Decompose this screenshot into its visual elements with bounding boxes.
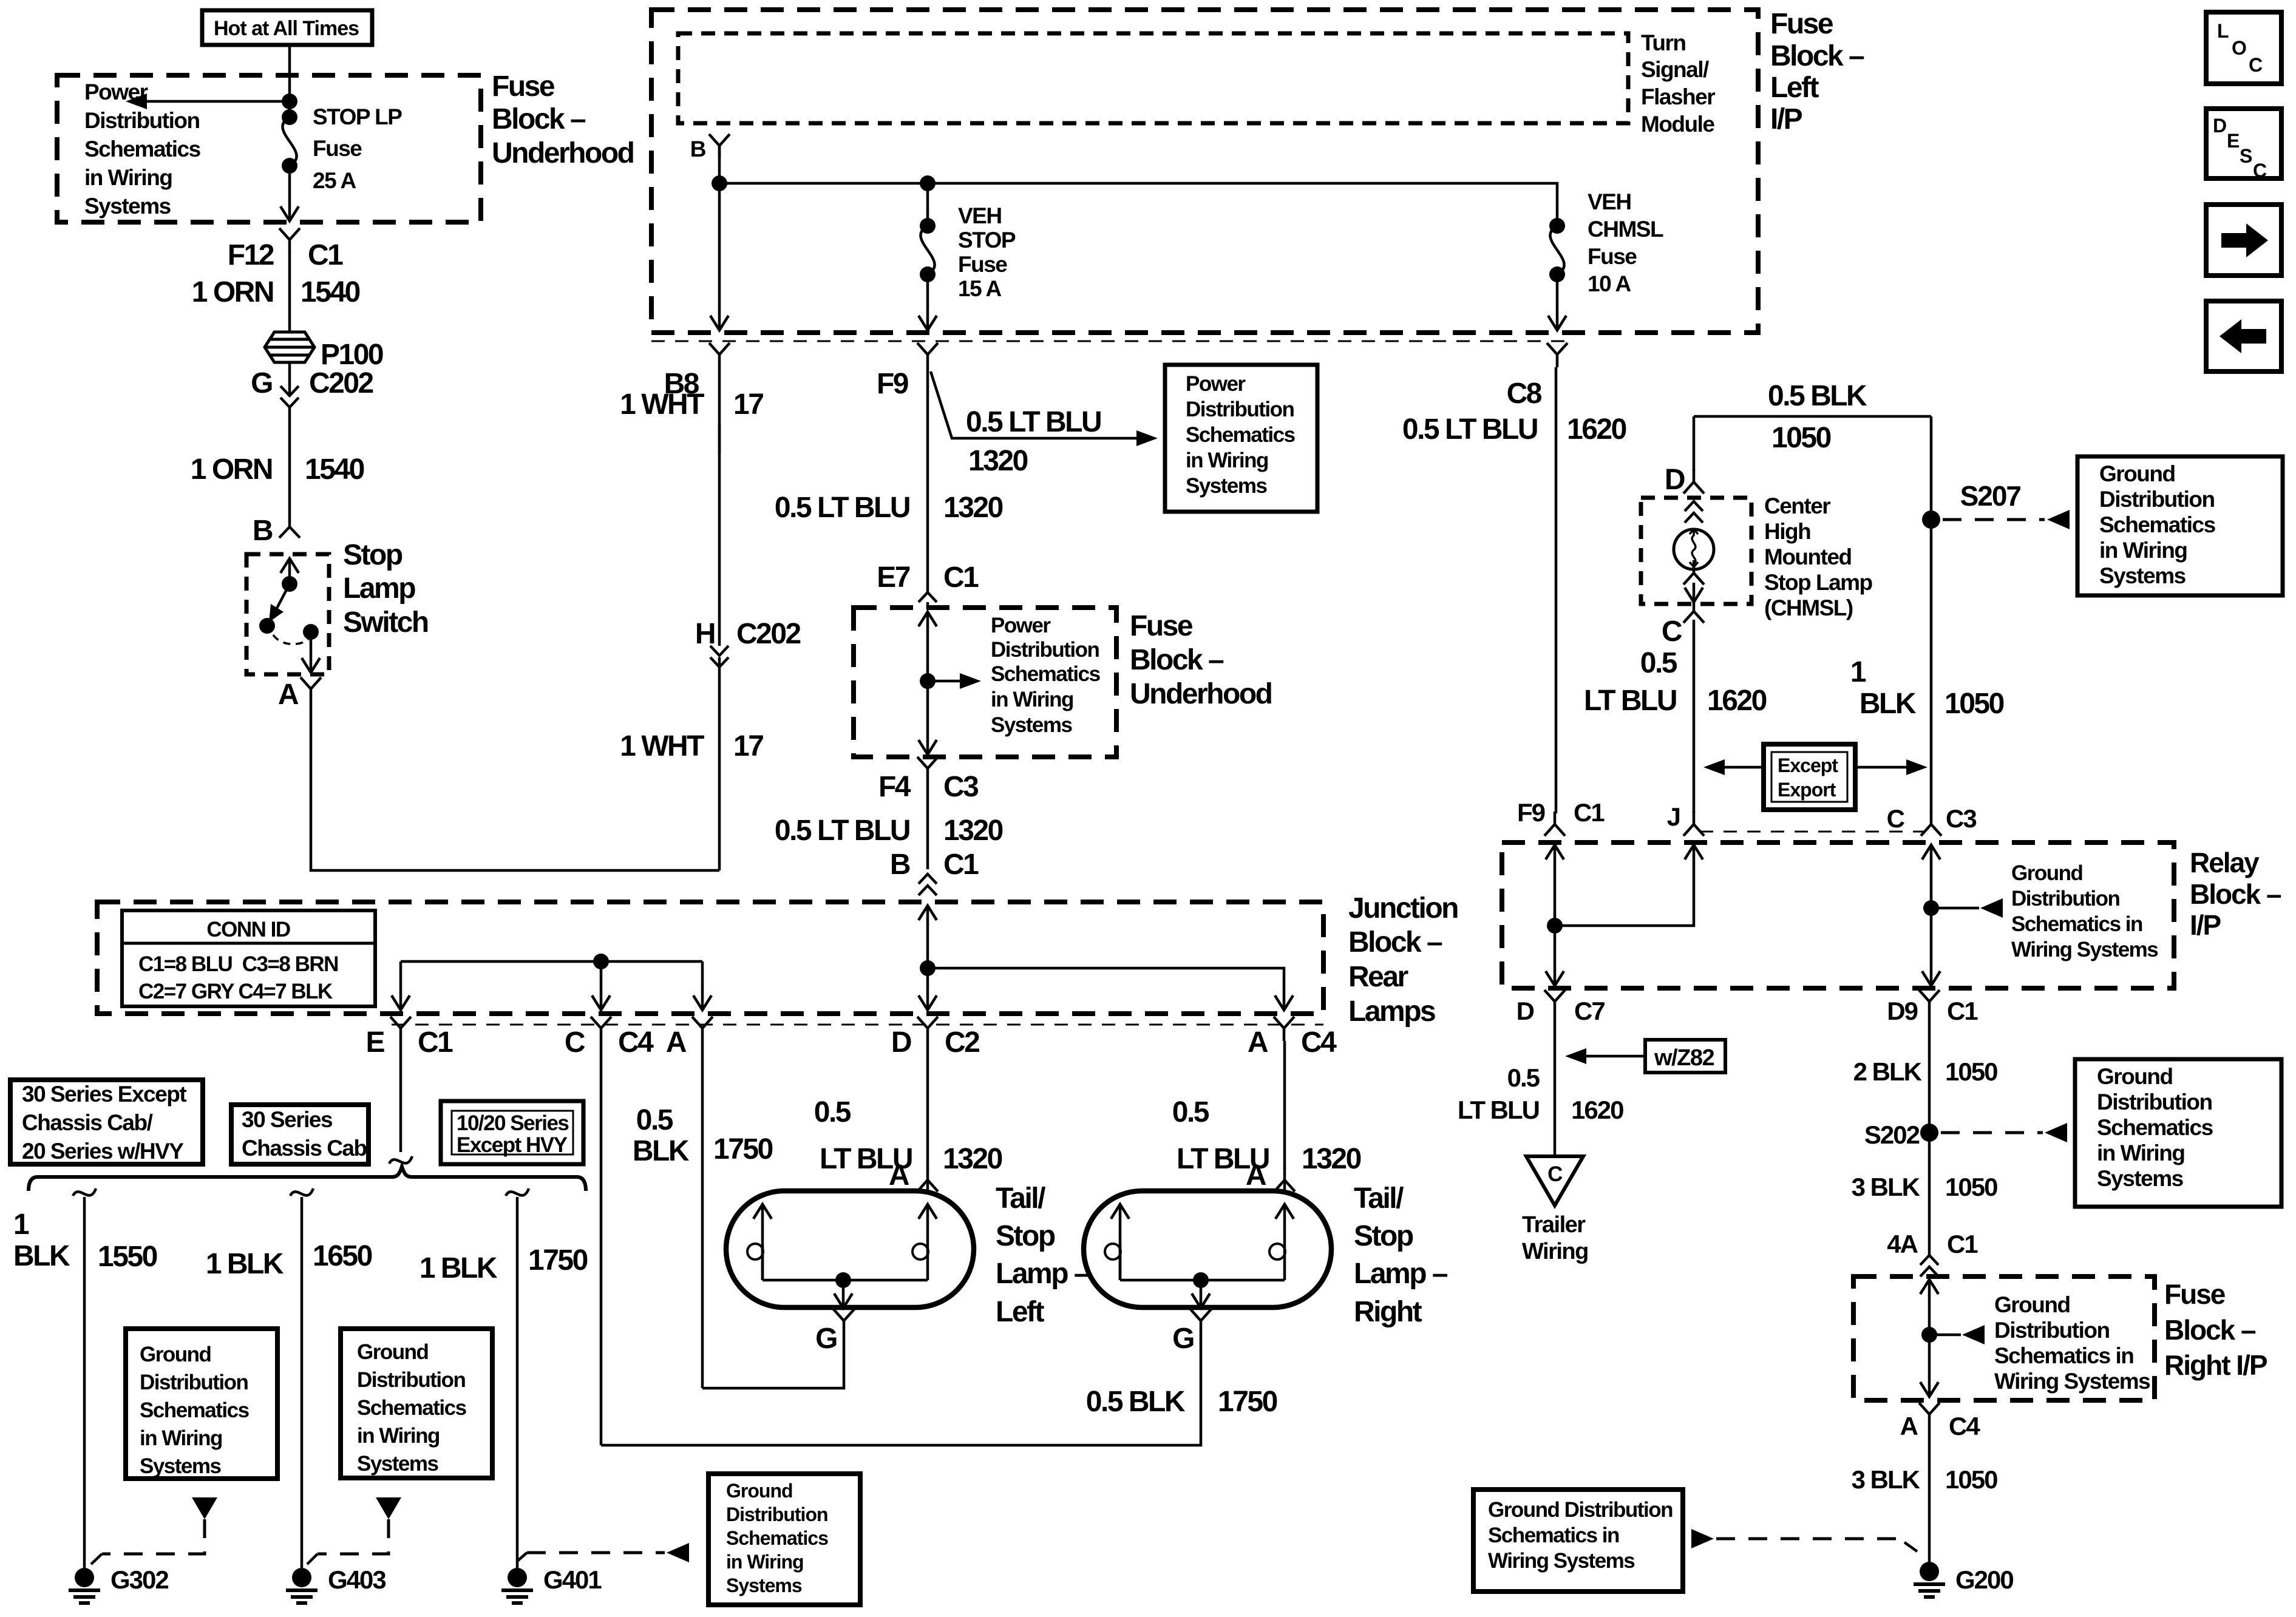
svg-text:G: G: [815, 1323, 837, 1355]
svg-text:G401: G401: [543, 1565, 602, 1594]
svg-text:Stop: Stop: [343, 539, 402, 571]
svg-text:Fuse: Fuse: [2164, 1278, 2226, 1310]
svg-text:D: D: [891, 1026, 911, 1059]
svg-text:C7: C7: [1574, 997, 1605, 1025]
svg-text:STOP: STOP: [958, 228, 1016, 253]
wire: fused feed bus inside fuse block: [719, 146, 1557, 330]
svg-text:Ground: Ground: [357, 1340, 428, 1364]
svg-text:LT BLU: LT BLU: [1584, 685, 1676, 717]
svg-text:(CHMSL): (CHMSL): [1764, 595, 1853, 620]
ground G401: [501, 1568, 533, 1603]
svg-text:C: C: [1887, 804, 1905, 833]
svg-text:Fuse: Fuse: [313, 136, 362, 161]
svg-text:Tail/: Tail/: [996, 1182, 1045, 1215]
svg-text:Junction: Junction: [1348, 892, 1458, 924]
svg-text:C1: C1: [308, 239, 343, 271]
svg-text:0.5 LT BLU: 0.5 LT BLU: [775, 815, 909, 847]
svg-text:Systems: Systems: [2099, 563, 2186, 588]
wire: junction block internal feed B to D and A: [919, 906, 937, 920]
svg-text:A: A: [1248, 1026, 1268, 1059]
svg-text:Distribution: Distribution: [2097, 1090, 2212, 1114]
CHMSL outline J to C: [1700, 831, 1924, 833]
svg-text:D: D: [1517, 997, 1534, 1025]
wire 2 BLK 1050 ground column: [1928, 1014, 1931, 1255]
svg-text:BLK: BLK: [633, 1135, 690, 1167]
svg-text:20 Series w/HVY: 20 Series w/HVY: [22, 1139, 184, 1164]
svg-text:Stop: Stop: [1354, 1220, 1413, 1252]
svg-text:A: A: [666, 1026, 687, 1059]
nav box left arrow: [2206, 301, 2281, 371]
svg-text:Block –: Block –: [492, 103, 586, 135]
wire: fuse output to block edge: [288, 166, 291, 221]
svg-text:1 ORN: 1 ORN: [192, 276, 273, 308]
svg-text:B: B: [690, 137, 706, 161]
svg-text:1 BLK: 1 BLK: [206, 1248, 284, 1280]
svg-text:Block –: Block –: [1130, 644, 1224, 676]
svg-text:Fuse: Fuse: [958, 252, 1007, 277]
svg-text:C1=8 BLU C3=8 BRN: C1=8 BLU C3=8 BRN: [138, 952, 338, 976]
wire 0.5 BLK 1050 CHMSL ground run: [1694, 416, 1931, 813]
svg-text:Distribution: Distribution: [726, 1503, 828, 1525]
wires 1 BLK 1550 / 1650 / 1750: [73, 1188, 96, 1196]
brace: series option split: [29, 1167, 586, 1191]
svg-text:Ground: Ground: [2097, 1064, 2173, 1089]
connector face line: [392, 1024, 1323, 1026]
svg-text:Ground: Ground: [1994, 1292, 2070, 1317]
svg-text:F9: F9: [1517, 798, 1545, 827]
svg-text:10 A: 10 A: [1588, 271, 1631, 296]
svg-text:Center: Center: [1764, 493, 1830, 518]
svg-text:C1: C1: [943, 561, 979, 594]
svg-text:Chassis Cab/: Chassis Cab/: [22, 1110, 153, 1135]
svg-text:Block –: Block –: [1770, 40, 1864, 72]
svg-text:1050: 1050: [1771, 422, 1831, 454]
svg-text:in Wiring: in Wiring: [1186, 449, 1268, 472]
nav box LOC: [2206, 12, 2281, 84]
svg-text:F4: F4: [878, 771, 911, 803]
svg-text:Schematics: Schematics: [2099, 512, 2216, 537]
svg-text:C1: C1: [418, 1026, 453, 1059]
wire 0.5 LT BLU 1620 (C8 circuit): [1555, 367, 1558, 813]
svg-text:1550: 1550: [98, 1241, 157, 1273]
svg-text:L: L: [2217, 20, 2229, 42]
svg-text:0.5: 0.5: [1507, 1063, 1540, 1092]
svg-text:BLK: BLK: [1860, 688, 1917, 720]
svg-text:Left: Left: [996, 1296, 1045, 1328]
connectors B8, F9, C8: [709, 343, 730, 367]
reference box for G200: [1473, 1490, 1683, 1592]
Hot at All Times box: [202, 10, 372, 45]
svg-text:Right: Right: [1354, 1296, 1422, 1328]
wire 0.5 BLK 1750 left lamp ground (pin G): [834, 1309, 854, 1334]
svg-text:Schematics: Schematics: [357, 1396, 467, 1420]
lamp: Center High Mounted Stop Lamp (CHMSL): [1641, 498, 1751, 604]
svg-text:1 BLK: 1 BLK: [419, 1252, 498, 1284]
wire: ground E to series options: [399, 1041, 402, 1152]
fuse VEH STOP 15 A: [920, 218, 936, 282]
stop lamp switch contacts: [280, 558, 299, 573]
svg-text:Distribution: Distribution: [2099, 487, 2215, 512]
svg-text:C1: C1: [1574, 798, 1605, 827]
wire 0.5 LT BLU 1320 to right lamp pin A: [1283, 1041, 1286, 1169]
svg-text:S207: S207: [1960, 480, 2021, 512]
left lamp filaments and ground bus: [753, 1204, 772, 1219]
svg-text:Signal/: Signal/: [1641, 57, 1709, 82]
svg-text:Power: Power: [991, 614, 1051, 637]
svg-text:1540: 1540: [301, 276, 360, 308]
svg-text:Except HVY: Except HVY: [457, 1133, 568, 1157]
svg-text:C1: C1: [1947, 997, 1978, 1025]
svg-text:B: B: [890, 849, 910, 881]
svg-text:LT BLU: LT BLU: [1177, 1143, 1269, 1175]
svg-text:I/P: I/P: [1770, 103, 1802, 135]
svg-text:C4: C4: [618, 1026, 654, 1059]
connector F12 | C1: [279, 228, 300, 253]
svg-text:Module: Module: [1641, 112, 1714, 137]
svg-text:A: A: [278, 679, 299, 711]
svg-text:17: 17: [733, 730, 763, 762]
svg-text:F9: F9: [877, 368, 908, 400]
svg-text:4A: 4A: [1887, 1230, 1918, 1258]
turn signal flasher module inner dashed box: [678, 33, 1628, 123]
svg-text:E: E: [2227, 130, 2240, 152]
svg-text:1320: 1320: [1302, 1143, 1361, 1175]
wire: battery feed from Hot at All Times into fuse block: [288, 45, 291, 117]
svg-text:1 WHT: 1 WHT: [620, 388, 704, 421]
svg-text:1 WHT: 1 WHT: [620, 730, 704, 762]
svg-text:Fuse: Fuse: [1130, 610, 1193, 642]
svg-text:Distribution: Distribution: [1994, 1318, 2110, 1343]
wire 1 ORN 1540: [288, 251, 291, 331]
reference box for G302: [126, 1329, 277, 1479]
inline connector P100: [265, 332, 314, 362]
svg-text:1050: 1050: [1945, 1173, 1997, 1201]
svg-text:G: G: [1172, 1323, 1194, 1355]
svg-text:A: A: [1900, 1412, 1918, 1440]
svg-text:S: S: [2240, 145, 2252, 167]
svg-text:in Wiring: in Wiring: [726, 1551, 804, 1573]
svg-text:C: C: [1547, 1162, 1563, 1186]
svg-text:30 Series Except: 30 Series Except: [22, 1082, 186, 1107]
connector A | C4: [1919, 1403, 1940, 1427]
svg-text:Schematics: Schematics: [1186, 423, 1296, 447]
wire 0.5 LT BLU 1320 to left lamp pin A: [926, 1041, 929, 1169]
svg-text:Systems: Systems: [726, 1575, 802, 1596]
svg-text:Schematics: Schematics: [140, 1398, 250, 1422]
svg-text:1050: 1050: [1944, 688, 2004, 720]
wire exits at fuse block edge: [710, 316, 729, 330]
svg-text:Distribution: Distribution: [84, 108, 200, 133]
svg-text:G403: G403: [328, 1565, 385, 1594]
svg-text:in Wiring: in Wiring: [2099, 538, 2187, 563]
svg-text:1320: 1320: [943, 492, 1003, 524]
svg-text:Systems: Systems: [1186, 474, 1268, 498]
svg-text:Underhood: Underhood: [1130, 678, 1272, 710]
connector G | C202 and wire 1 ORN 1540: [288, 362, 291, 395]
fuse VEH CHMSL 10 A: [1549, 218, 1565, 282]
svg-text:Distribution: Distribution: [991, 638, 1099, 662]
svg-text:30 Series: 30 Series: [242, 1107, 333, 1132]
svg-text:J: J: [1667, 802, 1680, 831]
pin C of CHMSL: [1683, 598, 1704, 623]
svg-text:D: D: [2213, 115, 2226, 137]
svg-text:E: E: [365, 1026, 384, 1059]
svg-text:Ground: Ground: [726, 1480, 793, 1502]
svg-text:Wiring: Wiring: [1522, 1239, 1588, 1264]
svg-text:1050: 1050: [1945, 1057, 1997, 1086]
svg-text:Ground Distribution: Ground Distribution: [1488, 1498, 1673, 1522]
wire 0.5 LT BLU 1320 (F9 circuit): [926, 367, 929, 592]
svg-text:1320: 1320: [943, 1143, 1002, 1175]
option box w/Z82: [1645, 1040, 1725, 1073]
svg-text:Lamp: Lamp: [343, 572, 415, 605]
svg-text:Block –: Block –: [2190, 878, 2281, 910]
svg-text:Wiring Systems: Wiring Systems: [2011, 938, 2158, 961]
wire: junction block internal ground bus E-C-A: [401, 961, 702, 1010]
nav box DESC: [2206, 109, 2281, 178]
ground G403: [286, 1568, 318, 1603]
arrow: to Power Distribution Schematics: [126, 93, 147, 109]
svg-text:3 BLK: 3 BLK: [1852, 1465, 1920, 1494]
lamp: Tail/Stop Lamp - Left: [726, 1191, 974, 1307]
svg-text:0.5 LT BLU: 0.5 LT BLU: [775, 492, 909, 524]
svg-text:Lamp –: Lamp –: [1354, 1258, 1448, 1290]
svg-text:G302: G302: [110, 1565, 168, 1594]
svg-text:Wiring Systems: Wiring Systems: [1994, 1369, 2150, 1394]
svg-text:in Wiring: in Wiring: [357, 1424, 440, 1448]
svg-text:C: C: [565, 1026, 585, 1059]
svg-text:High: High: [1764, 519, 1810, 544]
svg-text:Fuse: Fuse: [492, 70, 555, 103]
svg-text:CHMSL: CHMSL: [1588, 217, 1663, 242]
svg-text:Left: Left: [1770, 72, 1819, 104]
svg-text:Switch: Switch: [343, 606, 428, 639]
svg-text:10/20 Series: 10/20 Series: [457, 1111, 569, 1135]
svg-text:Distribution: Distribution: [140, 1371, 248, 1394]
svg-text:in Wiring: in Wiring: [2097, 1141, 2184, 1165]
svg-text:0.5 LT BLU: 0.5 LT BLU: [1402, 413, 1537, 446]
svg-text:Schematics: Schematics: [84, 137, 201, 161]
svg-text:Schematics in: Schematics in: [1994, 1343, 2133, 1368]
svg-text:C: C: [2249, 54, 2263, 76]
svg-text:Lamp –: Lamp –: [996, 1258, 1090, 1290]
connectors E|C1, C|C4, A, D|C2, A|C4: [390, 1017, 411, 1041]
svg-text:Schematics: Schematics: [2097, 1115, 2213, 1140]
svg-text:Wiring Systems: Wiring Systems: [1488, 1549, 1635, 1573]
svg-text:Relay: Relay: [2190, 847, 2260, 878]
wire branch 0.5 LT BLU 1320 to reference: [931, 371, 1136, 438]
svg-text:Schematics: Schematics: [991, 662, 1101, 686]
svg-text:C3: C3: [943, 771, 978, 803]
wire: switch output to B8 riser: [311, 702, 719, 870]
nav box right arrow: [2206, 205, 2281, 276]
svg-text:1750: 1750: [528, 1244, 588, 1276]
svg-text:Stop Lamp: Stop Lamp: [1764, 570, 1873, 595]
svg-text:0.5: 0.5: [814, 1096, 851, 1128]
svg-text:1620: 1620: [1567, 413, 1626, 446]
svg-text:Stop: Stop: [996, 1220, 1055, 1252]
svg-text:Systems: Systems: [2097, 1166, 2184, 1191]
svg-text:C4: C4: [1301, 1026, 1337, 1059]
splice S207: [1922, 510, 1940, 529]
svg-text:0.5 BLK: 0.5 BLK: [1768, 380, 1867, 412]
svg-text:Schematics in: Schematics in: [1488, 1524, 1619, 1547]
ground G200: [1914, 1562, 1945, 1597]
svg-text:VEH: VEH: [1588, 189, 1631, 214]
thin dashed connector-face line: [651, 341, 1566, 342]
svg-text:P100: P100: [321, 339, 383, 371]
svg-text:C3: C3: [1946, 804, 1976, 833]
svg-text:C1: C1: [1947, 1230, 1978, 1258]
svg-text:I/P: I/P: [2190, 909, 2221, 941]
svg-text:Fuse: Fuse: [1588, 244, 1637, 269]
svg-text:1620: 1620: [1707, 685, 1767, 717]
svg-text:1750: 1750: [1218, 1386, 1277, 1418]
node: junction to Power Distribution reference: [282, 93, 297, 109]
svg-text:1320: 1320: [968, 445, 1028, 477]
svg-text:Systems: Systems: [84, 194, 171, 219]
svg-text:C: C: [2253, 160, 2267, 181]
svg-text:Block –: Block –: [1348, 926, 1442, 958]
connector F4 | C3: [917, 757, 938, 781]
svg-text:Mounted: Mounted: [1764, 544, 1852, 569]
svg-text:1320: 1320: [943, 815, 1003, 847]
svg-text:3 BLK: 3 BLK: [1852, 1173, 1920, 1201]
svg-text:25 A: 25 A: [313, 168, 356, 193]
reference box: Power Distribution Schematics: [1165, 365, 1317, 512]
connectors F9|C1, J, C|C3: [1544, 812, 1565, 836]
switch S: Stop Lamp Switch: [246, 554, 329, 674]
lamp: Tail/Stop Lamp - Right: [1084, 1191, 1331, 1307]
reference dashes and box for G401: [527, 1551, 665, 1554]
svg-text:BLK: BLK: [13, 1240, 70, 1272]
svg-text:Block –: Block –: [2164, 1314, 2256, 1346]
svg-text:Turn: Turn: [1641, 30, 1685, 55]
svg-text:0.5: 0.5: [1172, 1096, 1209, 1128]
wire 1 WHT 17 (B8 circuit): [718, 367, 721, 454]
svg-text:1: 1: [13, 1209, 29, 1241]
svg-text:C: C: [1662, 615, 1682, 648]
svg-text:Except: Except: [1778, 754, 1838, 776]
off-page connector C: Trailer Wiring: [1526, 1156, 1583, 1205]
splice S202: [1920, 1124, 1938, 1142]
svg-text:Trailer: Trailer: [1522, 1212, 1586, 1238]
svg-text:in Wiring: in Wiring: [991, 688, 1073, 711]
svg-text:Ground: Ground: [140, 1343, 211, 1366]
svg-text:0.5: 0.5: [1640, 647, 1677, 679]
svg-text:1540: 1540: [305, 453, 364, 486]
svg-text:Hot at All Times: Hot at All Times: [214, 17, 359, 40]
svg-text:0.5 LT BLU: 0.5 LT BLU: [966, 406, 1101, 438]
svg-text:LT BLU: LT BLU: [820, 1143, 912, 1175]
svg-text:VEH: VEH: [958, 203, 1002, 228]
bulb of CHMSL: [1685, 501, 1703, 523]
svg-text:1750: 1750: [713, 1133, 773, 1165]
svg-text:Distribution: Distribution: [2011, 887, 2119, 910]
svg-text:Fuse: Fuse: [1770, 8, 1833, 40]
svg-text:Systems: Systems: [357, 1452, 439, 1476]
svg-text:E7: E7: [877, 561, 910, 594]
svg-text:Schematics in: Schematics in: [2011, 912, 2142, 936]
svg-text:Tail/: Tail/: [1354, 1182, 1404, 1215]
svg-text:1050: 1050: [1945, 1465, 1997, 1494]
option box Except Export: [1764, 744, 1855, 810]
svg-text:C4: C4: [1949, 1412, 1980, 1440]
svg-text:B: B: [253, 515, 273, 547]
svg-text:Flasher: Flasher: [1641, 84, 1715, 109]
svg-text:2 BLK: 2 BLK: [1853, 1057, 1922, 1086]
ground G302: [69, 1568, 100, 1603]
svg-text:in Wiring: in Wiring: [84, 165, 172, 190]
fuse block underhood (left) dashed box: [57, 75, 481, 222]
svg-text:Chassis Cab: Chassis Cab: [242, 1136, 367, 1161]
svg-text:C8: C8: [1507, 378, 1542, 410]
svg-text:S202: S202: [1864, 1120, 1920, 1149]
svg-text:Distribution: Distribution: [357, 1368, 465, 1392]
svg-text:in Wiring: in Wiring: [140, 1426, 222, 1450]
svg-text:Schematics: Schematics: [726, 1527, 828, 1549]
svg-text:CONN ID: CONN ID: [206, 918, 290, 941]
svg-text:1: 1: [1850, 656, 1866, 688]
connectors D|C7 and D9|C1: [1544, 990, 1565, 1014]
svg-text:Ground: Ground: [2099, 461, 2175, 486]
svg-text:C2=7 GRY C4=7 BLK: C2=7 GRY C4=7 BLK: [138, 980, 333, 1003]
svg-text:0.5: 0.5: [636, 1104, 673, 1136]
svg-text:C202: C202: [309, 367, 373, 399]
svg-text:D9: D9: [1887, 997, 1917, 1025]
svg-text:Ground: Ground: [2011, 861, 2082, 885]
svg-text:G200: G200: [1955, 1565, 2013, 1594]
svg-text:C1: C1: [943, 849, 979, 881]
svg-text:Systems: Systems: [991, 713, 1073, 737]
svg-text:Lamps: Lamps: [1348, 995, 1435, 1028]
svg-text:STOP LP: STOP LP: [313, 104, 402, 129]
svg-text:LT BLU: LT BLU: [1458, 1096, 1539, 1124]
svg-text:Systems: Systems: [140, 1454, 222, 1478]
svg-text:Power: Power: [1186, 372, 1246, 396]
svg-text:G: G: [251, 367, 272, 399]
wire 0.5 LT BLU 1620 to trailer: [1554, 1014, 1557, 1154]
svg-text:w/Z82: w/Z82: [1654, 1045, 1714, 1071]
svg-text:1650: 1650: [313, 1240, 372, 1272]
svg-text:Underhood: Underhood: [492, 137, 634, 169]
svg-text:C202: C202: [736, 618, 801, 650]
svg-text:Distribution: Distribution: [1186, 398, 1294, 421]
svg-text:O: O: [2232, 37, 2246, 59]
svg-text:Export: Export: [1778, 779, 1836, 801]
outer dashed box: [651, 10, 1758, 333]
svg-text:D: D: [1665, 464, 1685, 496]
svg-text:17: 17: [733, 388, 763, 421]
svg-text:0.5 BLK: 0.5 BLK: [1086, 1386, 1186, 1418]
table CONN ID: [122, 910, 375, 1006]
svg-text:15 A: 15 A: [958, 276, 1002, 301]
wire 0.5 BLK 1750 right lamp ground (pin G): [1190, 1309, 1211, 1334]
fuse STOP LP 25 A: [282, 109, 297, 174]
svg-text:1620: 1620: [1571, 1096, 1623, 1124]
svg-text:C2: C2: [945, 1026, 979, 1059]
svg-text:Rear: Rear: [1348, 961, 1408, 993]
svg-text:Right I/P: Right I/P: [2164, 1349, 2267, 1381]
svg-text:F12: F12: [228, 239, 274, 271]
pin A of stop lamp switch: [301, 677, 321, 702]
svg-text:1 ORN: 1 ORN: [191, 453, 272, 486]
